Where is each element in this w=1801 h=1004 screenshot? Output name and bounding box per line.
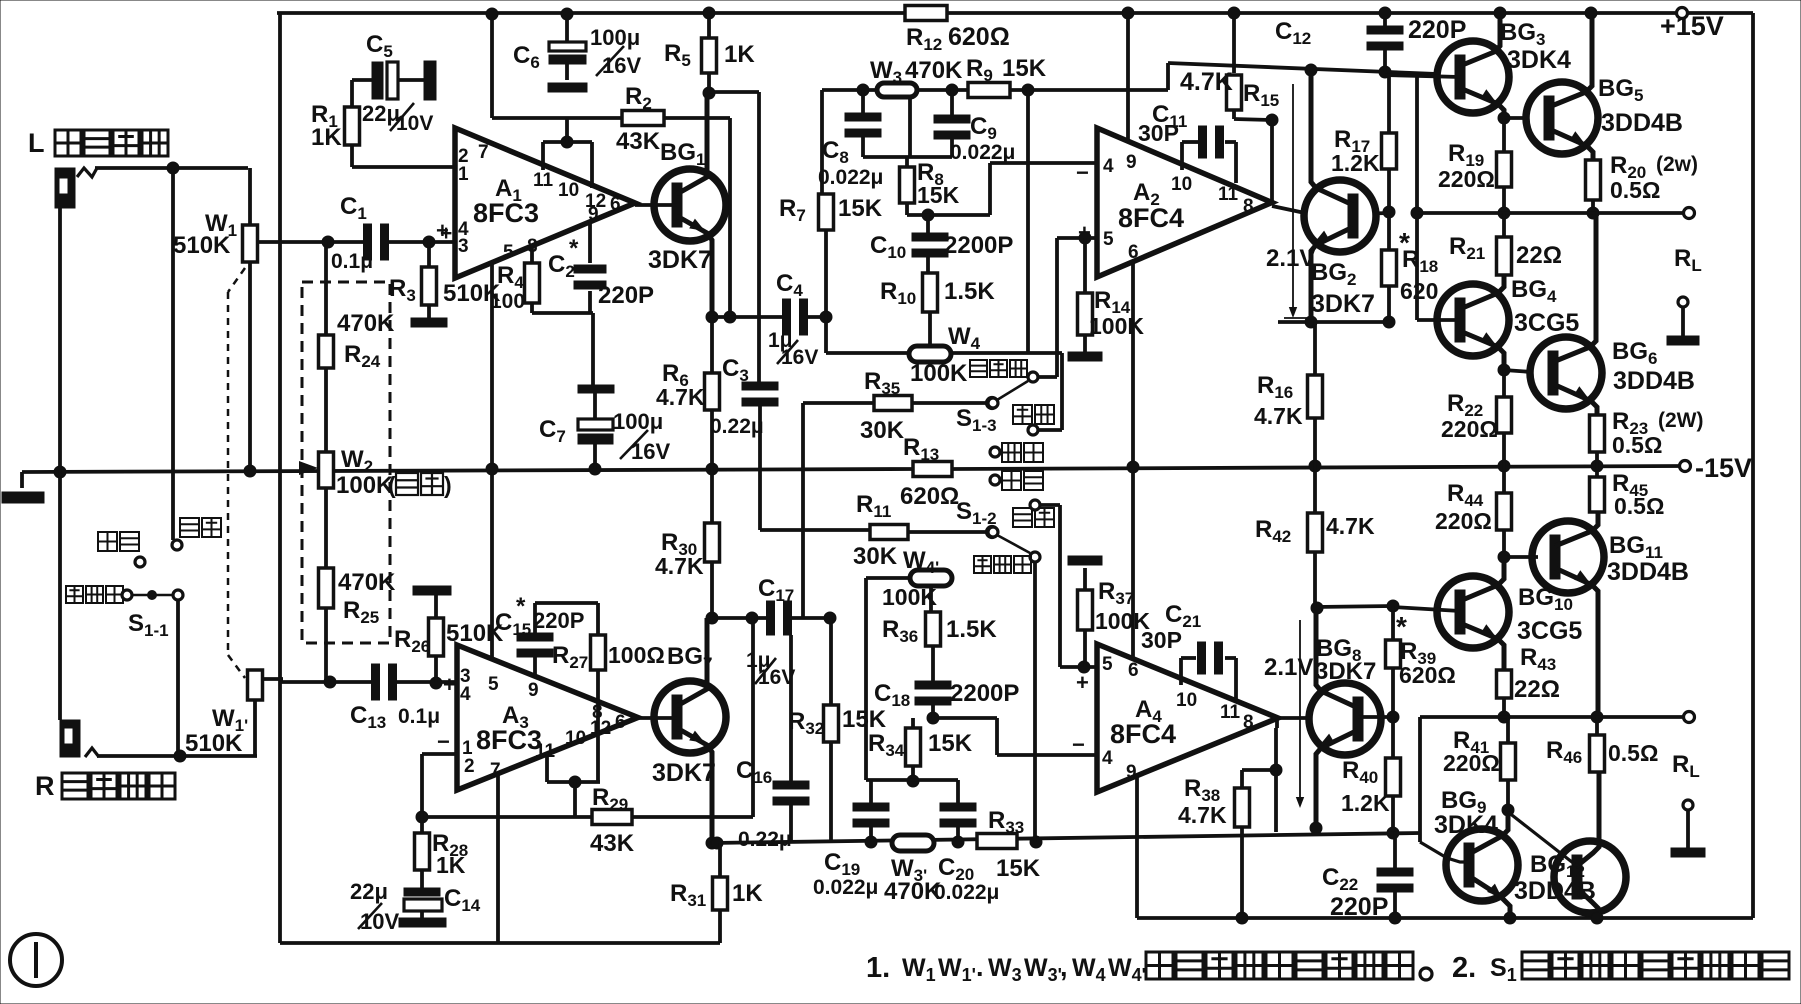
svg-text:8FC3: 8FC3 <box>473 198 539 228</box>
svg-text:4: 4 <box>1103 156 1114 177</box>
svg-text:3DK7: 3DK7 <box>652 759 716 787</box>
svg-text:3DD4B: 3DD4B <box>1607 558 1689 586</box>
svg-text:1.2K: 1.2K <box>1341 790 1390 816</box>
svg-text:1K: 1K <box>436 852 466 878</box>
svg-text:220P: 220P <box>1408 16 1466 44</box>
svg-text:1.: 1. <box>866 952 890 984</box>
svg-text:4.7K: 4.7K <box>1326 513 1375 539</box>
svg-text:1.5K: 1.5K <box>946 616 997 643</box>
svg-text:6: 6 <box>1128 242 1139 263</box>
svg-text:16V: 16V <box>631 439 670 464</box>
svg-text:15K: 15K <box>842 706 887 733</box>
svg-text:100K: 100K <box>910 360 968 387</box>
svg-text:-15V: -15V <box>1695 453 1752 483</box>
svg-text:11: 11 <box>533 170 554 191</box>
svg-text:10: 10 <box>1171 174 1192 195</box>
svg-text:620: 620 <box>1400 278 1438 304</box>
svg-text:22Ω: 22Ω <box>1516 242 1562 269</box>
svg-text:7: 7 <box>490 760 501 781</box>
svg-text:(: ( <box>388 472 396 498</box>
svg-text:22μ: 22μ <box>350 879 388 904</box>
svg-text:R: R <box>35 771 55 801</box>
svg-text:4.7K: 4.7K <box>1254 403 1303 429</box>
svg-text:*: * <box>569 235 579 262</box>
svg-text:3DD4B: 3DD4B <box>1613 367 1695 395</box>
svg-text:620Ω: 620Ω <box>900 483 959 510</box>
svg-text:3DK7: 3DK7 <box>1315 658 1376 685</box>
svg-text:11: 11 <box>1218 184 1239 205</box>
svg-text:8FC3: 8FC3 <box>476 725 542 755</box>
svg-text:+: + <box>443 672 456 697</box>
svg-text:100μ: 100μ <box>613 409 663 434</box>
svg-text:10V: 10V <box>396 112 433 135</box>
svg-text:9: 9 <box>588 204 599 225</box>
svg-text:0.022μ: 0.022μ <box>950 141 1015 164</box>
svg-text:510K: 510K <box>173 232 231 259</box>
svg-text:3DD4B: 3DD4B <box>1601 109 1683 137</box>
svg-text:3DK4: 3DK4 <box>1507 46 1571 74</box>
svg-text:3CG5: 3CG5 <box>1517 617 1582 645</box>
svg-text:5: 5 <box>488 674 499 695</box>
svg-text:2200P: 2200P <box>950 680 1019 707</box>
svg-text:9: 9 <box>1126 152 1137 173</box>
svg-text:): ) <box>444 472 452 498</box>
svg-text:.: . <box>976 952 984 982</box>
svg-text:3DD4B: 3DD4B <box>1514 877 1596 905</box>
svg-text:2.1V: 2.1V <box>1266 245 1315 272</box>
svg-text:9: 9 <box>1126 762 1137 783</box>
svg-text:1K: 1K <box>311 124 342 151</box>
svg-text:2.: 2. <box>1452 952 1476 984</box>
svg-text:0.5Ω: 0.5Ω <box>1612 432 1662 458</box>
svg-text:6: 6 <box>610 194 621 215</box>
svg-text:2.1V: 2.1V <box>1264 654 1313 681</box>
svg-text:8FC4: 8FC4 <box>1118 203 1184 233</box>
svg-text:0.22μ: 0.22μ <box>710 415 764 438</box>
svg-text:0.022μ: 0.022μ <box>934 881 999 904</box>
svg-text:220Ω: 220Ω <box>1435 508 1492 534</box>
svg-text:4: 4 <box>1102 748 1113 769</box>
svg-text:510K: 510K <box>185 730 243 757</box>
svg-text:100μ: 100μ <box>590 25 640 50</box>
svg-text:1.2K: 1.2K <box>1331 150 1380 176</box>
svg-text:100Ω: 100Ω <box>608 642 665 668</box>
svg-text:470K: 470K <box>337 310 395 337</box>
svg-text:3DK4: 3DK4 <box>1434 811 1498 839</box>
svg-text:0.022μ: 0.022μ <box>813 876 878 899</box>
svg-text:470K: 470K <box>338 569 396 596</box>
svg-text:5: 5 <box>1102 654 1113 675</box>
svg-text:0.5Ω: 0.5Ω <box>1614 493 1664 519</box>
svg-text:4.7K: 4.7K <box>1178 802 1227 828</box>
svg-text:100K: 100K <box>1089 313 1144 339</box>
svg-text:0.1μ: 0.1μ <box>398 705 440 728</box>
svg-text:100K: 100K <box>1095 608 1150 634</box>
svg-text:6: 6 <box>615 712 626 733</box>
svg-text:9: 9 <box>528 680 539 701</box>
svg-text:(2W): (2W) <box>1658 409 1704 432</box>
svg-text:4.7K: 4.7K <box>1180 68 1233 96</box>
svg-text:16V: 16V <box>602 53 641 78</box>
svg-text:6: 6 <box>1128 660 1139 681</box>
svg-text:0.022μ: 0.022μ <box>818 166 883 189</box>
svg-text:4.7K: 4.7K <box>656 384 705 410</box>
svg-text:1: 1 <box>458 164 469 185</box>
svg-text:15K: 15K <box>917 182 960 208</box>
svg-text:4.7K: 4.7K <box>655 553 704 579</box>
svg-text:(2w): (2w) <box>1656 153 1698 176</box>
svg-text:+: + <box>1076 670 1089 695</box>
svg-text:30K: 30K <box>860 417 905 444</box>
svg-text:5: 5 <box>1103 229 1114 250</box>
svg-text:8FC4: 8FC4 <box>1110 719 1176 749</box>
svg-text:3DK7: 3DK7 <box>648 246 712 274</box>
svg-text:3CG5: 3CG5 <box>1514 309 1579 337</box>
svg-text:620Ω: 620Ω <box>1399 662 1456 688</box>
svg-text:43K: 43K <box>616 128 661 155</box>
svg-text:L: L <box>28 128 45 158</box>
svg-text:0.5Ω: 0.5Ω <box>1608 740 1658 766</box>
svg-text:220Ω: 220Ω <box>1441 416 1498 442</box>
svg-text:15K: 15K <box>928 730 973 757</box>
svg-text:220P: 220P <box>598 282 654 309</box>
svg-text:10: 10 <box>558 180 579 201</box>
svg-text:0.1μ: 0.1μ <box>331 250 373 273</box>
svg-text:10: 10 <box>1176 690 1197 711</box>
svg-text:15K: 15K <box>996 855 1041 882</box>
svg-text:1K: 1K <box>724 41 755 68</box>
svg-text:1K: 1K <box>732 880 763 907</box>
svg-text:2200P: 2200P <box>944 232 1013 259</box>
svg-text:0.22μ: 0.22μ <box>738 828 792 851</box>
svg-text:,: , <box>1060 952 1068 982</box>
svg-text:220Ω: 220Ω <box>1443 750 1500 776</box>
svg-text:2: 2 <box>464 756 475 777</box>
svg-text:3: 3 <box>458 236 469 257</box>
svg-text:100: 100 <box>490 290 525 313</box>
svg-text:22Ω: 22Ω <box>1514 676 1560 703</box>
svg-text:5: 5 <box>503 242 514 263</box>
svg-text:3DK7: 3DK7 <box>1311 290 1375 318</box>
svg-text:220P: 220P <box>533 608 584 633</box>
svg-text:43K: 43K <box>590 830 635 857</box>
svg-text:+: + <box>440 222 452 245</box>
svg-text:470K: 470K <box>884 878 942 905</box>
svg-text:4: 4 <box>460 684 471 705</box>
svg-text:10V: 10V <box>360 909 399 934</box>
svg-text:16V: 16V <box>781 346 818 369</box>
svg-text:100K: 100K <box>336 472 394 499</box>
svg-text:+15V: +15V <box>1660 11 1724 41</box>
svg-text:15K: 15K <box>838 195 883 222</box>
svg-text:−: − <box>1076 160 1089 185</box>
svg-text:8: 8 <box>1243 712 1254 733</box>
svg-text:0.5Ω: 0.5Ω <box>1610 177 1660 203</box>
svg-text:22μ: 22μ <box>362 101 400 126</box>
svg-text:8: 8 <box>1243 196 1254 217</box>
svg-text:30K: 30K <box>853 543 898 570</box>
svg-text:11: 11 <box>1220 702 1241 723</box>
svg-text:620Ω: 620Ω <box>948 23 1010 51</box>
svg-text:30P: 30P <box>1138 120 1179 146</box>
svg-text:1.5K: 1.5K <box>944 278 995 305</box>
svg-text:12: 12 <box>590 718 611 739</box>
svg-text:220Ω: 220Ω <box>1438 166 1495 192</box>
svg-text:15K: 15K <box>1002 55 1047 82</box>
svg-text:470K: 470K <box>905 57 963 84</box>
svg-text:*: * <box>516 593 526 620</box>
svg-text:220P: 220P <box>1330 893 1388 921</box>
svg-text:7: 7 <box>478 142 489 163</box>
svg-text:10: 10 <box>565 728 586 749</box>
svg-text:−: − <box>437 729 450 754</box>
svg-text:100K: 100K <box>882 584 937 610</box>
